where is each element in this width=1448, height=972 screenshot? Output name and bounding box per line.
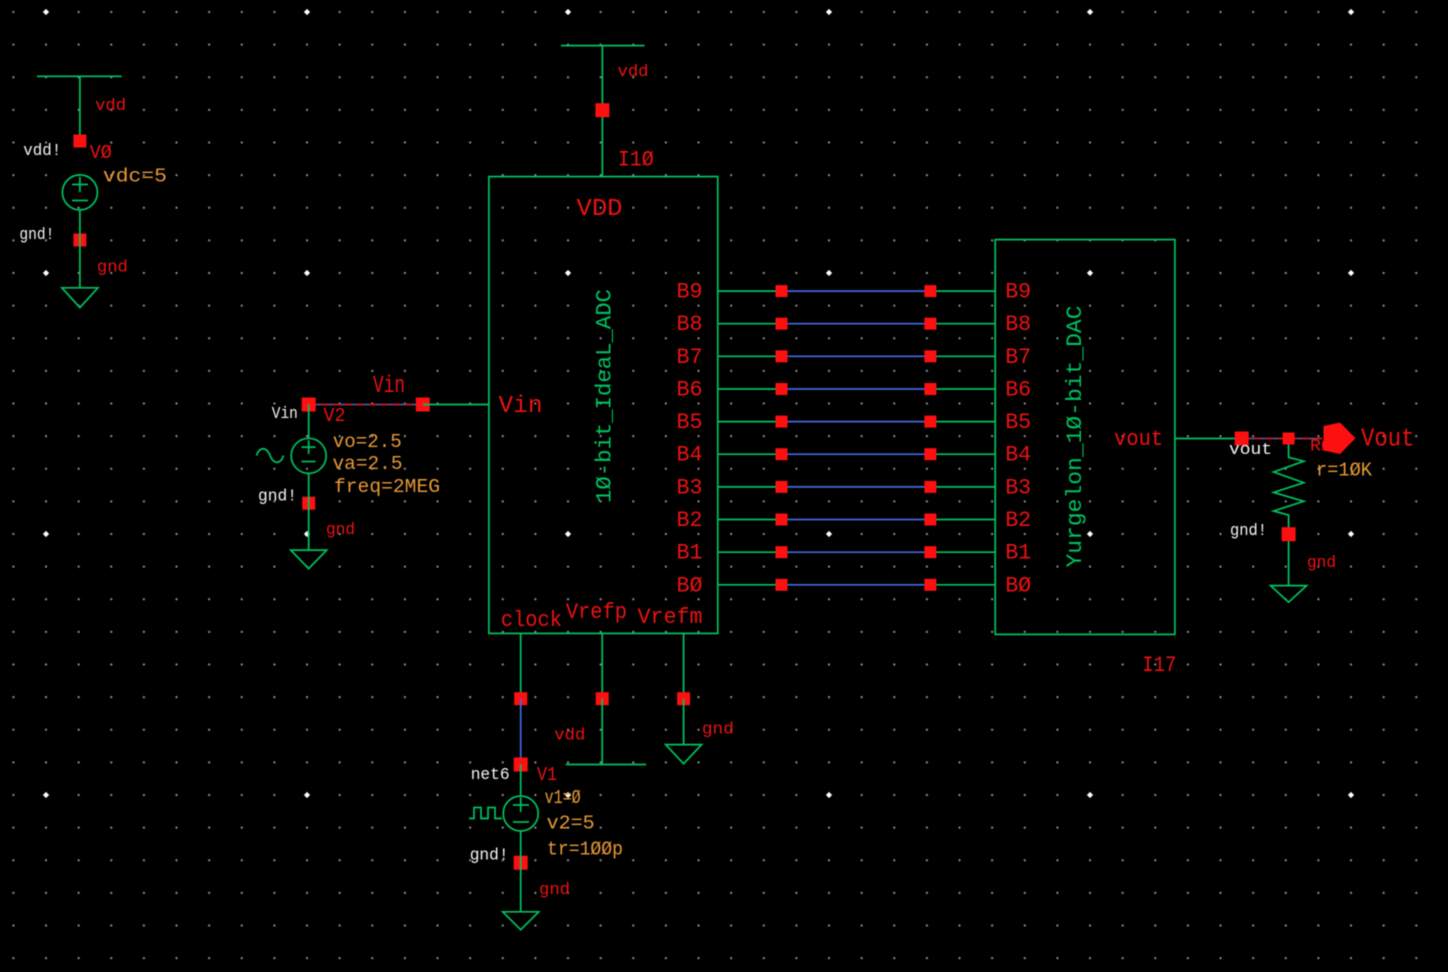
pin square DAC B5 <box>924 416 936 428</box>
wire DAC B7 stub <box>930 355 995 357</box>
svg-text:gnd!: gnd! <box>19 226 54 245</box>
svg-text:VØ: VØ <box>90 142 112 164</box>
pin square DAC B3 <box>924 481 936 493</box>
wire net B6 (bus line) <box>782 388 931 390</box>
pin square DAC B7 <box>924 350 936 362</box>
svg-text:B4: B4 <box>677 443 703 468</box>
svg-text:vdd: vdd <box>95 97 126 116</box>
wire DAC B5 stub <box>930 421 995 423</box>
pin square V0 minus terminal <box>73 234 86 247</box>
svg-text:vdd: vdd <box>554 726 585 745</box>
wire V2 to ground <box>308 473 310 550</box>
svg-text:B3: B3 <box>1005 475 1031 500</box>
pin square ADC B5 <box>776 416 788 428</box>
svg-text:gnd: gnd <box>702 721 734 740</box>
pin square ADC B6 <box>776 383 788 395</box>
pin square R0 bottom terminal <box>1282 527 1296 541</box>
wire Vin node to ADC Vin pin <box>423 404 489 406</box>
wire R0 to ground <box>1288 541 1290 585</box>
svg-text:B7: B7 <box>1005 345 1031 370</box>
ground symbol (V1) <box>503 912 539 930</box>
wire ADC Vrefp pin down <box>601 633 603 698</box>
svg-text:B2: B2 <box>677 508 703 533</box>
svg-text:net6: net6 <box>471 766 510 785</box>
svg-text:B8: B8 <box>677 312 703 337</box>
pin square DAC B8 <box>924 318 936 330</box>
wire net B7 (bus line) <box>782 355 931 357</box>
wire DAC vout to node <box>1175 438 1242 440</box>
svg-text:B1: B1 <box>1005 541 1031 566</box>
pin square DAC B0 <box>924 579 936 591</box>
pin square V2 minus terminal <box>302 497 315 510</box>
svg-text:B3: B3 <box>677 475 703 500</box>
svg-text:tr=1ØØp: tr=1ØØp <box>547 839 623 861</box>
wire net B4 (bus line) <box>782 453 931 455</box>
wire net B2 (bus line) <box>782 519 931 521</box>
wire DAC B1 stub <box>930 551 995 553</box>
wire ADC B4 stub <box>718 453 782 455</box>
pin square ADC VDD <box>595 103 609 117</box>
sine wave glyph <box>257 449 284 463</box>
wire ADC B5 stub <box>718 421 782 423</box>
wire net Vin (tap) <box>309 404 423 406</box>
svg-text:B4: B4 <box>1005 443 1031 468</box>
svg-text:gnd: gnd <box>326 521 355 540</box>
wire V2 plus pin to source <box>308 405 310 439</box>
wire net net6 (clock) <box>520 699 522 765</box>
svg-text:B6: B6 <box>677 378 703 403</box>
wire ADC B7 stub <box>718 355 782 357</box>
wire ADC B8 stub <box>718 323 782 325</box>
svg-text:B9: B9 <box>677 280 703 305</box>
svg-text:va=2.5: va=2.5 <box>333 453 403 475</box>
pin square ADC B9 <box>776 285 788 297</box>
wire ADC B9 stub <box>718 290 782 292</box>
svg-text:v1=Ø: v1=Ø <box>545 787 581 809</box>
svg-text:gnd!: gnd! <box>1230 522 1267 541</box>
svg-text:B2: B2 <box>1005 508 1031 533</box>
pulse source V1 <box>503 796 538 831</box>
svg-text:gnd: gnd <box>539 881 570 900</box>
svg-text:BØ: BØ <box>677 573 703 598</box>
svg-text:vdc=5: vdc=5 <box>103 165 167 187</box>
pin square V1 minus terminal <box>514 856 528 870</box>
svg-text:Vin: Vin <box>373 373 405 400</box>
pin square V1 plus terminal <box>514 758 528 772</box>
wire V1 plus pin to source <box>520 765 522 797</box>
svg-text:V1: V1 <box>537 764 557 786</box>
svg-text:B9: B9 <box>1005 280 1031 305</box>
pin square clock <box>514 692 527 705</box>
output pin symbol Vout <box>1324 423 1356 455</box>
svg-text:gnd: gnd <box>97 259 128 278</box>
op block U-I10: 10-bit ideal ADC body <box>489 177 718 634</box>
ground symbol (R0) <box>1271 586 1307 603</box>
pin square ADC B8 <box>776 318 788 330</box>
svg-text:I1Ø: I1Ø <box>618 147 654 172</box>
svg-text:vo=2.5: vo=2.5 <box>333 431 402 453</box>
svg-text:B1: B1 <box>677 541 703 566</box>
wire ADC B3 stub <box>718 486 782 488</box>
svg-text:gnd: gnd <box>1307 554 1336 573</box>
ground symbol (V2) <box>291 550 327 569</box>
pin square Vrefm <box>677 692 690 705</box>
pin square Vrefp <box>596 692 609 705</box>
pin square ADC B3 <box>776 481 788 493</box>
pin square R0 top terminal <box>1283 433 1295 445</box>
pin square DAC B6 <box>924 383 936 395</box>
svg-text:Vin: Vin <box>499 393 543 420</box>
dc voltage source V0 vdc=5 <box>62 175 97 210</box>
svg-text:gnd!: gnd! <box>258 488 297 507</box>
pin square Vin node <box>416 398 430 412</box>
svg-text:Vrefm: Vrefm <box>638 605 703 630</box>
wire ADC Vrefm pin down <box>683 633 685 698</box>
wire Vrefm to ground <box>683 699 685 745</box>
power symbol vdd! (left supply rail) <box>37 75 122 77</box>
wire ADC B2 stub <box>718 519 782 521</box>
pin square ADC B7 <box>776 350 788 362</box>
pin square V2 plus terminal <box>302 398 316 412</box>
wire vdd rail to V0 plus pin <box>79 76 81 141</box>
svg-text:vout: vout <box>1229 441 1272 460</box>
wire DAC B6 stub <box>930 388 995 390</box>
svg-text:I17: I17 <box>1142 653 1176 678</box>
svg-text:B5: B5 <box>1005 410 1031 435</box>
svg-text:vdd: vdd <box>618 63 649 82</box>
wire DAC B9 stub <box>930 290 995 292</box>
power symbol vdd (Vrefp) <box>566 764 646 766</box>
wire DAC B2 stub <box>930 519 995 521</box>
svg-text:B6: B6 <box>1005 378 1031 403</box>
svg-text:B7: B7 <box>677 345 703 370</box>
wire vdd to ADC VDD pin <box>601 46 603 177</box>
wire DAC B4 stub <box>930 453 995 455</box>
svg-text:Yurgelon_1Ø-bit_DAC: Yurgelon_1Ø-bit_DAC <box>1063 306 1088 568</box>
wire ADC B0 stub <box>718 584 782 586</box>
svg-text:1Ø-bit_IdeaL_ADC: 1Ø-bit_IdeaL_ADC <box>593 289 618 503</box>
wire V0 to ground <box>79 210 81 288</box>
svg-text:gnd!: gnd! <box>470 846 509 865</box>
pin square ADC B1 <box>776 546 788 558</box>
wire net B3 (bus line) <box>782 486 931 488</box>
svg-text:clock: clock <box>501 608 562 633</box>
svg-text:BØ: BØ <box>1005 573 1031 598</box>
wire ADC B6 stub <box>718 388 782 390</box>
pin square ADC B0 <box>776 579 788 591</box>
wire Vrefp to vdd <box>601 699 603 765</box>
svg-text:Vrefp: Vrefp <box>566 600 627 625</box>
pin square DAC B4 <box>924 448 936 460</box>
wire V1 to ground <box>520 831 522 912</box>
resistor R0 r=10K <box>1274 445 1304 528</box>
wire net B0 (bus line) <box>782 584 931 586</box>
svg-text:v2=5: v2=5 <box>547 813 595 835</box>
wire DAC B8 stub <box>930 323 995 325</box>
wire net B5 (bus line) <box>782 421 931 423</box>
pin square ADC B4 <box>776 448 788 460</box>
sine source V2 <box>291 438 326 473</box>
wire net B8 (bus line) <box>782 323 931 325</box>
wire net B1 (bus line) <box>782 551 931 553</box>
pulse wave glyph <box>469 808 502 819</box>
op block U-I17: Yurgelon 10-bit DAC body <box>995 240 1175 635</box>
svg-text:vout: vout <box>1114 427 1163 452</box>
pin square DAC B9 <box>924 285 936 297</box>
pin square V0 plus terminal <box>73 135 86 148</box>
wire vout node to output pin (tap) <box>1242 438 1322 440</box>
ground symbol (left) <box>62 288 98 308</box>
wire ADC clock pin down <box>520 633 522 698</box>
pin square ADC B2 <box>776 514 788 526</box>
pin square DAC B2 <box>924 514 936 526</box>
svg-text:B8: B8 <box>1005 312 1031 337</box>
svg-text:V2: V2 <box>324 405 346 427</box>
pin square DAC B1 <box>924 546 936 558</box>
pin square vout node <box>1235 432 1249 446</box>
wire ADC B1 stub <box>718 551 782 553</box>
svg-text:Vin: Vin <box>272 405 298 424</box>
svg-text:r=1ØK: r=1ØK <box>1316 460 1373 482</box>
svg-text:vdd!: vdd! <box>23 142 61 161</box>
ground symbol (Vrefm) <box>666 745 702 764</box>
wire net B9 (bus line) <box>782 290 931 292</box>
power symbol vdd (ADC supply) <box>561 45 645 47</box>
svg-text:freq=2MEG: freq=2MEG <box>334 476 440 498</box>
wire DAC B3 stub <box>930 486 995 488</box>
svg-text:B5: B5 <box>677 410 703 435</box>
svg-text:VDD: VDD <box>577 196 623 223</box>
svg-text:Vout: Vout <box>1361 424 1415 454</box>
wire DAC B0 stub <box>930 584 995 586</box>
